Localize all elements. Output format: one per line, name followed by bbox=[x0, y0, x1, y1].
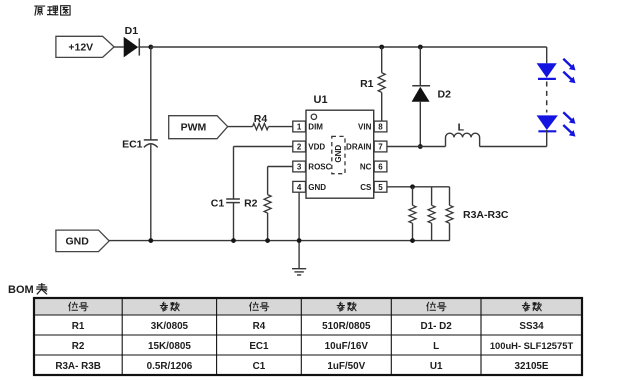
wire: rail to D2 cathode bbox=[419, 47, 421, 86]
pin 8 box bbox=[374, 121, 387, 132]
svg-text:GND: GND bbox=[334, 145, 343, 163]
resistor R4 bbox=[253, 113, 269, 130]
pin name GND bbox=[308, 183, 326, 192]
svg-text:C1: C1 bbox=[211, 197, 225, 209]
svg-text:R1: R1 bbox=[72, 321, 85, 332]
pin name DIM bbox=[308, 123, 323, 132]
svg-text:R2: R2 bbox=[72, 341, 85, 352]
svg-text:L: L bbox=[458, 121, 465, 133]
pin name CS bbox=[360, 183, 372, 192]
net flag PWM bbox=[169, 116, 228, 139]
resistor R2 bbox=[244, 195, 271, 213]
net flag GND bbox=[56, 230, 109, 252]
wire: inductor to LED string bbox=[480, 146, 547, 148]
wire: C1 to ground rail bbox=[233, 203, 235, 241]
svg-text:8: 8 bbox=[378, 123, 383, 132]
svg-text:NC: NC bbox=[360, 163, 372, 172]
wire: R2 to ground rail bbox=[267, 213, 269, 241]
pin name VDD bbox=[308, 143, 325, 152]
op-amp/controller IC U1 body bbox=[306, 94, 374, 198]
LED D-led2 bbox=[537, 112, 576, 136]
capacitor C1 bbox=[211, 197, 240, 209]
wire: EC1 to ground rail bbox=[150, 145, 152, 241]
wire: pin 4 GND down to rail and earth bbox=[298, 192, 300, 269]
junction: R3A bottom on ground rail bbox=[410, 238, 415, 243]
svg-text:4: 4 bbox=[297, 183, 302, 192]
dashed wire between LEDs bbox=[546, 82, 548, 113]
BOM header row bbox=[69, 302, 541, 311]
pin 1 box bbox=[293, 121, 306, 132]
pin 5 box bbox=[374, 181, 387, 192]
BOM table title bbox=[8, 284, 47, 297]
svg-text:L: L bbox=[433, 341, 439, 352]
wire: rail to R1 bbox=[381, 47, 383, 73]
svg-text:R4: R4 bbox=[254, 113, 268, 125]
resistor R3C bbox=[446, 187, 453, 241]
svg-text:D2: D2 bbox=[438, 88, 452, 100]
svg-text:1uF/50V: 1uF/50V bbox=[327, 361, 365, 372]
svg-text:7: 7 bbox=[378, 143, 383, 152]
svg-text:1: 1 bbox=[297, 123, 302, 132]
diode D1 bbox=[114, 25, 151, 57]
svg-text:CS: CS bbox=[360, 183, 372, 192]
wire: top +12V rail bbox=[151, 46, 547, 48]
wire: PWM to R4 bbox=[228, 126, 253, 128]
junction: D1 cathode / EC1 / top rail bbox=[148, 45, 153, 50]
svg-text:C1: C1 bbox=[253, 361, 266, 372]
svg-text:6: 6 bbox=[378, 163, 383, 172]
pin 6 box bbox=[374, 161, 387, 172]
svg-text:15K/0805: 15K/0805 bbox=[148, 341, 191, 352]
resistor R3B bbox=[428, 187, 435, 241]
svg-text:3K/0805: 3K/0805 bbox=[151, 321, 189, 332]
junction: C1 on ground rail bbox=[231, 238, 236, 243]
wire: pin 3 ROSC to R2 bbox=[268, 167, 293, 195]
wire: R1 to pin 8 VIN bbox=[381, 92, 383, 121]
pin name NC bbox=[360, 163, 372, 172]
svg-text:R3A-R3C: R3A-R3C bbox=[463, 209, 509, 221]
capacitor EC1 bbox=[122, 138, 158, 150]
svg-text:32105E: 32105E bbox=[514, 361, 548, 372]
svg-text:DRAIN: DRAIN bbox=[346, 143, 372, 152]
svg-text:5: 5 bbox=[378, 183, 383, 192]
pin name DRAIN bbox=[346, 143, 372, 152]
pin name ROSC bbox=[308, 163, 331, 172]
svg-text:2: 2 bbox=[297, 143, 302, 152]
diode D2 bbox=[412, 86, 451, 102]
junction: R1 on top rail bbox=[379, 45, 384, 50]
label R3A-R3C bbox=[463, 209, 509, 221]
svg-text:+12V: +12V bbox=[68, 42, 93, 54]
svg-text:3: 3 bbox=[297, 163, 302, 172]
svg-text:100uH- SLF12575T: 100uH- SLF12575T bbox=[490, 340, 574, 351]
pin 4 box bbox=[293, 181, 306, 192]
wire: top rail down to LED1 bbox=[546, 47, 548, 63]
earth ground symbol bbox=[292, 269, 306, 275]
svg-text:0.5R/1206: 0.5R/1206 bbox=[147, 361, 193, 372]
svg-text:U1: U1 bbox=[430, 361, 443, 372]
svg-text:10uF/16V: 10uF/16V bbox=[325, 341, 369, 352]
svg-text:510R/0805: 510R/0805 bbox=[322, 321, 371, 332]
BOM table grid bbox=[34, 298, 582, 375]
junction: D2 on top rail bbox=[418, 45, 423, 50]
resistor R3A bbox=[409, 187, 416, 241]
pin 7 box bbox=[374, 141, 387, 152]
wire: ground rail bbox=[109, 240, 449, 242]
junction: R2 on ground rail bbox=[265, 238, 270, 243]
LED D-led1 bbox=[537, 59, 576, 83]
wire: D2 anode to DRAIN net bbox=[419, 102, 421, 147]
svg-text:BOM: BOM bbox=[8, 284, 34, 296]
pin name VIN bbox=[358, 123, 372, 132]
svg-text:ROSC: ROSC bbox=[308, 163, 331, 172]
resistor R1 bbox=[360, 73, 385, 93]
svg-text:GND: GND bbox=[308, 183, 326, 192]
pin 3 box bbox=[293, 161, 306, 172]
U1 internal dashed GND box bbox=[332, 136, 345, 173]
title 原理图 bbox=[35, 6, 70, 15]
svg-text:U1: U1 bbox=[314, 94, 328, 106]
svg-text:EC1: EC1 bbox=[122, 138, 143, 150]
net flag +12V bbox=[56, 36, 114, 57]
svg-text:DIM: DIM bbox=[308, 123, 323, 132]
svg-text:D1: D1 bbox=[125, 25, 139, 37]
svg-text:PWM: PWM bbox=[181, 122, 207, 134]
wire: rail to EC1 bbox=[150, 47, 152, 140]
BOM row 3 bbox=[55, 361, 549, 372]
wire: pin 5 CS to sense resistors bbox=[387, 186, 450, 188]
wire: pin 7 DRAIN to inductor bbox=[387, 146, 446, 148]
BOM row 2 bbox=[72, 340, 574, 352]
BOM row 1 bbox=[72, 321, 544, 332]
wire: pin 2 VDD to C1 bbox=[234, 147, 293, 200]
svg-text:GND: GND bbox=[66, 236, 90, 248]
svg-text:SS34: SS34 bbox=[519, 321, 544, 332]
pin 2 box bbox=[293, 141, 306, 152]
svg-text:R4: R4 bbox=[253, 321, 266, 332]
junction: pin4 on ground rail bbox=[297, 238, 302, 243]
svg-text:R2: R2 bbox=[244, 197, 258, 209]
junction: D2 on DRAIN wire bbox=[418, 144, 423, 149]
svg-text:R1: R1 bbox=[360, 78, 374, 90]
junction: EC1 on ground rail bbox=[148, 238, 153, 243]
svg-text:EC1: EC1 bbox=[249, 341, 269, 352]
junction: R3A top bbox=[410, 184, 415, 189]
inductor L bbox=[446, 121, 480, 146]
svg-text:R3A- R3B: R3A- R3B bbox=[55, 361, 101, 372]
svg-text:VIN: VIN bbox=[358, 123, 372, 132]
wire: LED2 cathode down to inductor net bbox=[546, 130, 548, 147]
svg-text:VDD: VDD bbox=[308, 143, 325, 152]
wire: R4 to pin 1 bbox=[268, 126, 292, 128]
svg-text:D1- D2: D1- D2 bbox=[421, 321, 453, 332]
